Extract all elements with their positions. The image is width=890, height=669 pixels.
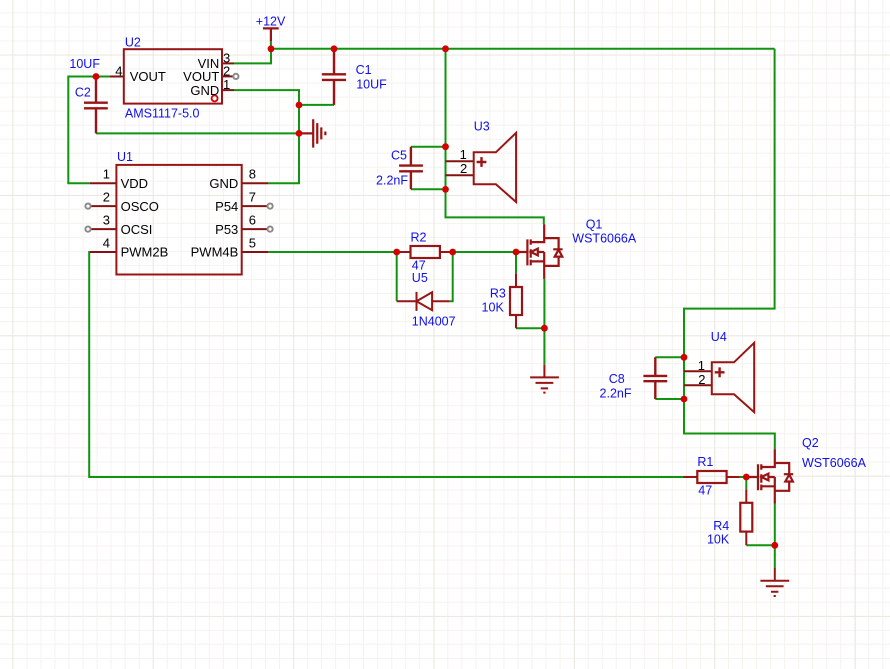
junction U3 pin2 node: [442, 186, 449, 193]
U4 pin 2 stub: [684, 384, 712, 386]
junction C2 top: [93, 73, 100, 80]
svg-text:PWM2B: PWM2B: [121, 245, 169, 260]
svg-text:1: 1: [460, 147, 467, 162]
junction Q2 source: [771, 542, 778, 549]
wire R1 to Q2 gate node: [740, 476, 747, 478]
svg-text:OSCO: OSCO: [121, 199, 159, 214]
svg-text:R3: R3: [490, 286, 506, 300]
speaker U4: [712, 343, 754, 412]
capacitor C2: [84, 77, 108, 134]
wire U5 diode left branch: [396, 252, 398, 301]
resistor R3: [515, 273, 517, 328]
svg-text:R1: R1: [697, 455, 713, 469]
svg-text:47: 47: [698, 484, 712, 498]
transistor Q1 WST6066A: [516, 224, 563, 279]
U1 pin 8 stub: [242, 182, 269, 184]
svg-text:WST6066A: WST6066A: [572, 232, 637, 246]
wire Q1 source down to ground: [543, 279, 545, 365]
svg-text:2: 2: [460, 161, 467, 176]
wire U1 PWM4B to R2: [268, 251, 396, 253]
U1 pin 2 stub: [91, 205, 117, 207]
svg-text:GND: GND: [209, 176, 238, 191]
resistor R4: [745, 489, 747, 545]
no-connect U1 pin 3: [85, 227, 90, 232]
junction R2 left: [393, 249, 400, 256]
svg-text:U3: U3: [474, 119, 490, 133]
no-connect U1 pin 6: [268, 227, 273, 232]
U1 pin 4 stub: [90, 251, 117, 253]
wire Q2 gate node down to R4: [745, 477, 747, 489]
svg-text:2.2nF: 2.2nF: [600, 387, 632, 401]
wire top rail down to U3 and Q1 drain: [446, 49, 544, 224]
junction Q2 gate: [743, 474, 750, 481]
wire C5 top branch: [411, 146, 446, 148]
svg-text:7: 7: [249, 190, 256, 205]
speaker U3: [474, 133, 516, 202]
svg-text:C5: C5: [391, 148, 407, 162]
svg-text:VOUT: VOUT: [130, 69, 166, 84]
svg-text:AMS1117-5.0: AMS1117-5.0: [125, 107, 200, 121]
wire U2 VOUT pin4 to U1 VDD: [68, 77, 110, 184]
wire right rail down to U4/C8 branch: [684, 49, 775, 449]
svg-text:10K: 10K: [707, 533, 730, 547]
svg-text:GND: GND: [190, 83, 219, 98]
junction U3 column top: [442, 45, 449, 52]
svg-text:1: 1: [223, 77, 230, 92]
U2 pin 2 stub: [222, 75, 233, 77]
svg-text:R2: R2: [411, 231, 427, 245]
diode U5 1N4007: [397, 292, 449, 311]
svg-text:P53: P53: [215, 222, 238, 237]
wire R2 to Q1 gate: [453, 251, 516, 253]
U3 pin 2 stub: [446, 174, 474, 176]
svg-text:U5: U5: [412, 271, 428, 285]
wire R4 bottom to Q2 source node: [746, 544, 775, 546]
svg-text:C8: C8: [609, 372, 625, 386]
wire R3 bottom to Q1 source node: [516, 327, 544, 329]
U1 pin 5 stub: [242, 251, 269, 253]
wire C8 bottom branch: [655, 398, 684, 400]
U2 pin 1 stub: [222, 89, 234, 91]
svg-text:3: 3: [103, 213, 110, 228]
junction +12V rail: [268, 45, 275, 52]
svg-text:1: 1: [103, 167, 110, 182]
svg-text:R4: R4: [713, 519, 729, 533]
wire C5 bottom branch: [411, 188, 446, 190]
svg-text:Q1: Q1: [586, 218, 603, 232]
U2 pin 3 stub: [222, 62, 234, 64]
wire U2 GND down to U1 GND pin: [234, 90, 299, 183]
junction Q1 gate: [513, 249, 520, 256]
svg-text:1: 1: [698, 358, 705, 373]
U2 open circle marker: [212, 95, 218, 101]
wire U2 VIN to +12V junction: [234, 49, 271, 64]
svg-text:C2: C2: [75, 85, 91, 99]
svg-text:VDD: VDD: [121, 176, 148, 191]
U2 body AMS1117-5.0: [124, 49, 222, 103]
wire C2 bottom to ground junction: [96, 132, 299, 134]
svg-text:2: 2: [103, 190, 110, 205]
svg-text:WST6066A: WST6066A: [802, 456, 867, 470]
capacitor C8: [643, 357, 667, 399]
power +12V: [263, 28, 279, 48]
svg-text:U4: U4: [711, 330, 727, 344]
U1 pin 6 stub: [242, 228, 268, 230]
wire C8 top branch: [655, 356, 684, 358]
svg-text:4: 4: [115, 64, 122, 79]
svg-text:C1: C1: [356, 63, 372, 77]
svg-text:2.2nF: 2.2nF: [376, 174, 408, 188]
resistor R2: [397, 251, 453, 253]
ground near Q1: [530, 365, 559, 393]
junction ground node: [296, 130, 303, 137]
wire Q2 source down to ground: [774, 504, 776, 569]
svg-text:P54: P54: [215, 199, 238, 214]
junction C1 bottom: [296, 102, 303, 109]
svg-text:6: 6: [249, 213, 256, 228]
junction C8 bottom: [681, 396, 688, 403]
svg-text:4: 4: [103, 236, 110, 251]
capacitor C5: [399, 147, 423, 190]
junction R2 right: [449, 249, 456, 256]
no-connect U1 pin 2: [85, 204, 90, 209]
U1 pin 7 stub: [242, 205, 268, 207]
no-connect U2 pin 2: [233, 74, 238, 79]
wire U1 PWM2B long rail to R1: [89, 252, 683, 477]
svg-text:+12V: +12V: [256, 14, 286, 28]
wire Q1 gate down to R3: [515, 252, 517, 273]
svg-text:OCSI: OCSI: [121, 222, 153, 237]
U3 pin 1 stub: [446, 160, 474, 162]
wire C1 bottom link: [299, 104, 334, 106]
U2 pin 4 stub: [110, 76, 124, 78]
wire U5 diode right branch: [449, 252, 453, 301]
U1 pin 3 stub: [91, 228, 117, 230]
svg-text:5: 5: [249, 236, 256, 251]
svg-text:U2: U2: [125, 36, 141, 50]
U1 pin 1 stub: [90, 182, 117, 184]
junction C1 top: [331, 45, 338, 52]
svg-text:10UF: 10UF: [356, 77, 387, 91]
ground near U2 (rotated): [299, 119, 325, 147]
svg-text:PWM4B: PWM4B: [191, 245, 239, 260]
svg-text:U1: U1: [117, 150, 133, 164]
wire top +12V rail: [271, 48, 775, 50]
U4 pin 1 stub: [684, 370, 712, 372]
no-connect U1 pin 7: [268, 204, 273, 209]
junction C8 top: [681, 354, 688, 361]
capacitor C1: [322, 49, 346, 105]
svg-text:10K: 10K: [482, 300, 505, 314]
transistor Q2 WST6066A: [746, 449, 793, 503]
svg-text:Q2: Q2: [802, 436, 819, 450]
svg-text:10UF: 10UF: [69, 57, 100, 71]
junction Q1 source: [541, 325, 548, 332]
ground near Q2: [760, 568, 789, 596]
svg-text:1N4007: 1N4007: [412, 314, 456, 328]
resistor R1: [683, 476, 740, 478]
U1 body: [116, 165, 241, 275]
junction U3 pin1 node: [442, 143, 449, 150]
svg-text:2: 2: [698, 372, 705, 387]
svg-text:8: 8: [249, 167, 256, 182]
